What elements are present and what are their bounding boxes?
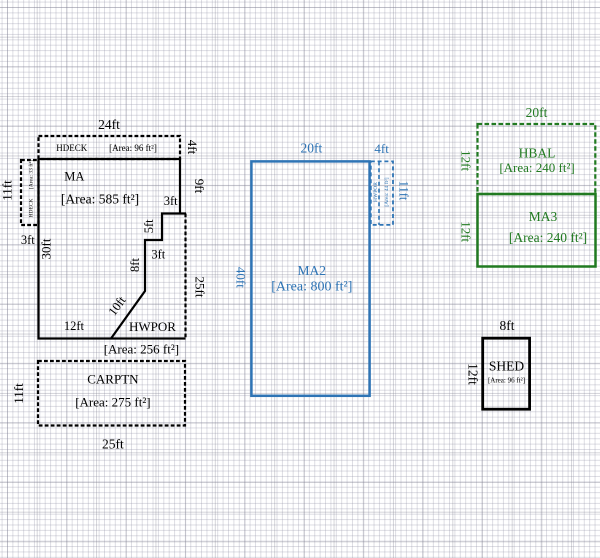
svg-text:HWPOR: HWPOR — [373, 182, 379, 202]
label MA — [64, 170, 84, 184]
svg-text:12ft: 12ft — [458, 150, 473, 171]
room HDECK top dashed outline — [39, 136, 181, 159]
svg-text:HDECK: HDECK — [28, 199, 34, 218]
svg-text:9ft: 9ft — [192, 179, 207, 194]
room HWPOR2 blue dashed outline — [371, 161, 393, 225]
svg-text:12ft: 12ft — [465, 363, 480, 385]
svg-text:12ft: 12ft — [64, 319, 85, 333]
svg-text:30ft: 30ft — [39, 238, 54, 259]
svg-text:[Area: 585 ft²]: [Area: 585 ft²] — [61, 192, 139, 207]
dimension 24ft — [98, 117, 120, 132]
dimension 11ft left strip — [0, 180, 15, 201]
label MA3 area 240 — [509, 230, 587, 245]
dimension 25ft right — [193, 277, 208, 298]
left narrow HDECK dashed strip — [21, 160, 39, 225]
svg-text:4ft: 4ft — [185, 140, 200, 155]
dimension 12ft left of MA3 — [458, 221, 473, 242]
label HDECK area 96 — [109, 143, 157, 153]
tiny vertical label area 33 — [27, 160, 34, 189]
dimension 30ft left — [39, 238, 54, 259]
label HBAL area 240 — [499, 160, 574, 175]
label CARPTN area 275 — [75, 395, 150, 410]
tiny vertical label HWPOR2 — [373, 182, 379, 202]
label MA2 — [298, 263, 327, 278]
dimension 12ft bottom of MA — [64, 319, 85, 333]
svg-text:25ft: 25ft — [193, 277, 208, 298]
svg-text:40ft: 40ft — [234, 267, 249, 288]
svg-text:8ft: 8ft — [500, 318, 515, 333]
tiny vertical label HDECK strip — [28, 199, 34, 218]
room MA solid outline with staircase — [39, 159, 187, 339]
svg-text:HWPOR: HWPOR — [129, 319, 176, 334]
dimension 3ft lower step — [151, 248, 165, 262]
svg-text:4ft: 4ft — [374, 141, 389, 156]
svg-text:MA: MA — [64, 170, 84, 184]
room SHED black solid outline — [483, 338, 530, 409]
svg-text:20ft: 20ft — [301, 141, 323, 156]
dimension 20ft above HBAL — [526, 105, 548, 120]
label HWPOR area 256 — [104, 342, 179, 357]
svg-text:CARPTN: CARPTN — [87, 372, 139, 387]
svg-text:20ft: 20ft — [526, 105, 548, 120]
dimension 3ft below strip — [21, 233, 35, 247]
tiny vertical label area 44 — [383, 177, 390, 206]
dimension 11ft left of CARPTN — [11, 383, 26, 404]
label SHED — [489, 359, 525, 374]
label MA2 area 800 — [271, 280, 352, 295]
label MA area 585 — [61, 192, 139, 207]
label HBAL — [519, 146, 556, 161]
svg-text:3ft: 3ft — [164, 194, 178, 208]
room CARPTN dashed outline — [38, 361, 185, 426]
room HBAL green dashed outline — [478, 124, 596, 194]
dimension 3ft upper step — [164, 194, 178, 208]
dimension 4ft above HWPOR2 — [374, 141, 389, 156]
svg-text:[Area: 256 ft²]: [Area: 256 ft²] — [104, 342, 179, 357]
svg-text:[Area: 33 ft²]: [Area: 33 ft²] — [27, 160, 34, 189]
svg-text:[Area: 240 ft²]: [Area: 240 ft²] — [509, 230, 587, 245]
dimension 11ft right of HWPOR2 — [397, 181, 411, 201]
svg-text:[Area: 96 ft²]: [Area: 96 ft²] — [488, 377, 525, 385]
svg-text:11ft: 11ft — [11, 383, 26, 404]
label SHED area 96 — [488, 377, 525, 385]
label MA3 — [529, 209, 558, 224]
dimension 4ft right of HDECK — [185, 140, 200, 155]
dimension 20ft above MA2 — [301, 141, 323, 156]
svg-text:3ft: 3ft — [21, 233, 35, 247]
dimension 8ft — [128, 258, 142, 272]
room MA3 green solid outline — [478, 194, 596, 267]
room MA2 blue solid outline — [251, 161, 369, 395]
svg-text:11ft: 11ft — [397, 181, 411, 201]
svg-text:MA3: MA3 — [529, 209, 558, 224]
svg-text:[Area: 96 ft²]: [Area: 96 ft²] — [109, 143, 157, 153]
svg-text:24ft: 24ft — [98, 117, 120, 132]
svg-text:8ft: 8ft — [128, 258, 142, 272]
dimension 12ft left of SHED — [465, 363, 480, 385]
svg-text:12ft: 12ft — [458, 221, 473, 242]
dashed right edge of HWPOR — [184, 214, 186, 339]
label CARPTN — [87, 372, 139, 387]
svg-text:[Area: 240 ft²]: [Area: 240 ft²] — [499, 160, 574, 175]
svg-text:HBAL: HBAL — [519, 146, 556, 161]
blue dashed divider — [378, 161, 380, 225]
svg-text:[Area: 44 ft²]: [Area: 44 ft²] — [383, 177, 390, 206]
dimension 8ft above SHED — [500, 318, 515, 333]
svg-text:SHED: SHED — [489, 359, 525, 374]
dimension 9ft — [192, 179, 207, 194]
label HDECK — [56, 143, 87, 153]
dimension 40ft left of MA2 — [234, 267, 249, 288]
svg-text:25ft: 25ft — [102, 437, 124, 452]
label HWPOR — [129, 319, 176, 334]
svg-text:[Area: 275 ft²]: [Area: 275 ft²] — [75, 395, 150, 410]
dimension 5ft — [142, 219, 156, 233]
svg-text:[Area: 800 ft²]: [Area: 800 ft²] — [271, 280, 352, 295]
svg-text:5ft: 5ft — [142, 219, 156, 233]
dimension 10ft diagonal — [105, 293, 128, 318]
svg-text:3ft: 3ft — [151, 248, 165, 262]
svg-text:HDECK: HDECK — [56, 143, 87, 153]
svg-text:11ft: 11ft — [0, 180, 15, 201]
svg-text:MA2: MA2 — [298, 263, 327, 278]
svg-text:10ft: 10ft — [105, 293, 128, 318]
dimension 12ft left of HBAL — [458, 150, 473, 171]
dimension 25ft bottom — [102, 437, 124, 452]
